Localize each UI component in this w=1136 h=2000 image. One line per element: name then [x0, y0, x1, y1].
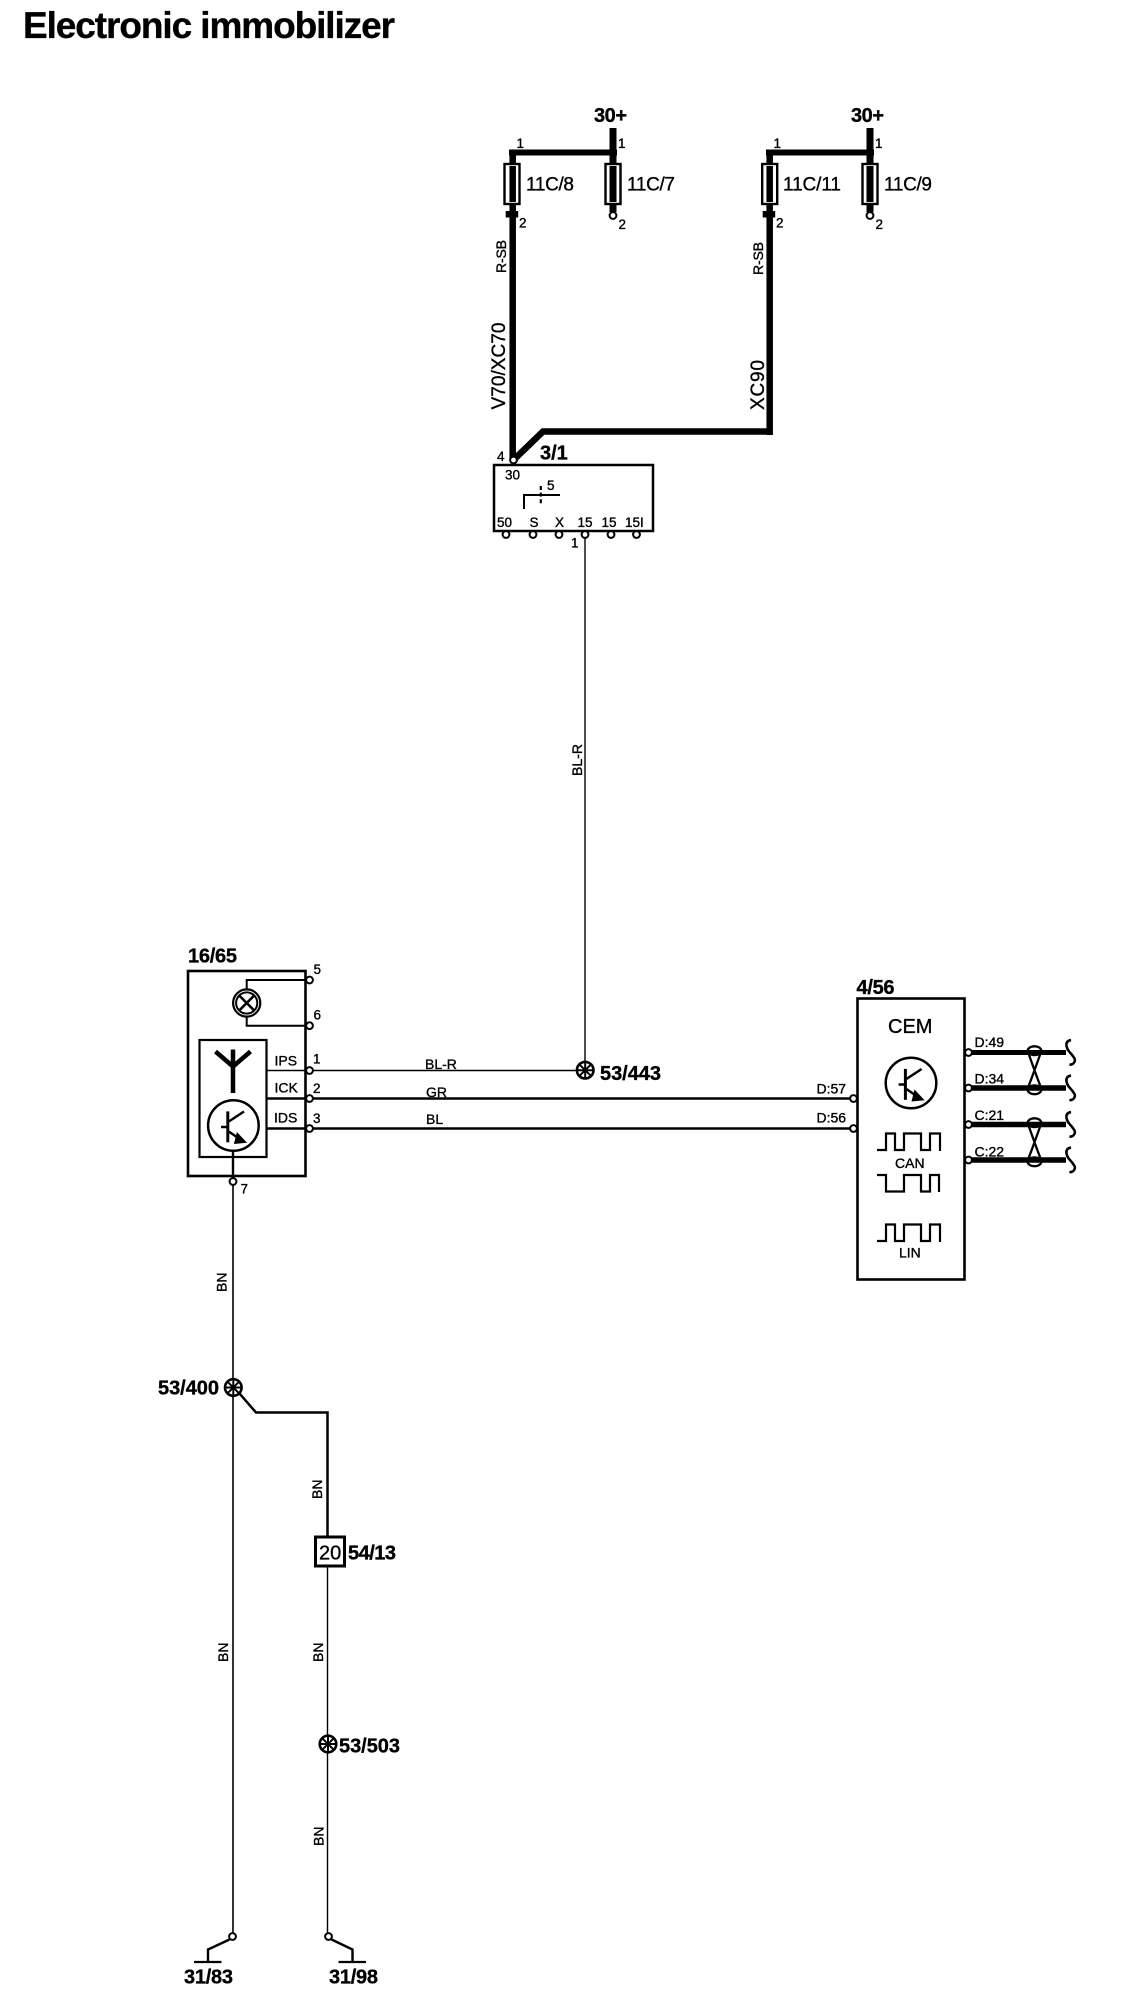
svg-text:7: 7 [241, 1182, 249, 1197]
svg-text:D:57: D:57 [817, 1081, 847, 1097]
svg-text:6: 6 [314, 1008, 322, 1023]
svg-text:XC90: XC90 [748, 360, 769, 410]
svg-text:Electronic immobilizer: Electronic immobilizer [23, 5, 395, 46]
svg-text:2: 2 [776, 216, 784, 231]
svg-text:D:56: D:56 [817, 1110, 847, 1126]
svg-text:4: 4 [497, 449, 505, 464]
svg-text:1: 1 [517, 136, 525, 151]
svg-text:2: 2 [876, 217, 884, 232]
svg-text:BL: BL [426, 1111, 443, 1127]
svg-text:54/13: 54/13 [348, 1543, 396, 1565]
svg-text:11C/7: 11C/7 [627, 175, 675, 196]
svg-text:D:49: D:49 [975, 1034, 1005, 1050]
svg-text:30: 30 [505, 468, 520, 483]
svg-text:C:21: C:21 [975, 1107, 1005, 1123]
svg-text:53/503: 53/503 [339, 1736, 400, 1758]
svg-text:30+: 30+ [594, 105, 627, 127]
svg-text:R-SB: R-SB [493, 240, 509, 273]
svg-text:1: 1 [875, 136, 883, 151]
svg-text:15: 15 [602, 515, 617, 530]
svg-text:15I: 15I [625, 515, 644, 530]
svg-text:BN: BN [214, 1273, 230, 1292]
svg-text:1: 1 [618, 136, 626, 151]
svg-text:11C/11: 11C/11 [783, 175, 841, 196]
svg-text:16/65: 16/65 [188, 946, 237, 968]
svg-text:V70/XC70: V70/XC70 [489, 323, 510, 410]
svg-text:53/443: 53/443 [600, 1063, 661, 1085]
svg-text:2: 2 [313, 1081, 321, 1096]
svg-text:3: 3 [313, 1111, 321, 1126]
svg-text:BL-R: BL-R [569, 744, 585, 776]
svg-text:50: 50 [497, 515, 512, 530]
svg-text:IDS: IDS [274, 1110, 297, 1126]
svg-text:IPS: IPS [275, 1053, 298, 1069]
svg-text:BN: BN [311, 1827, 327, 1846]
svg-text:53/400: 53/400 [158, 1378, 219, 1400]
svg-text:1: 1 [313, 1052, 321, 1067]
svg-text:15: 15 [578, 515, 593, 530]
svg-text:1: 1 [571, 536, 579, 551]
svg-text:5: 5 [547, 478, 555, 493]
svg-text:R-SB: R-SB [750, 242, 766, 275]
svg-text:20: 20 [319, 1543, 341, 1565]
svg-text:BN: BN [310, 1643, 326, 1662]
svg-text:1: 1 [774, 136, 782, 151]
svg-text:11C/8: 11C/8 [526, 175, 574, 196]
svg-text:BL-R: BL-R [425, 1056, 457, 1072]
svg-text:31/83: 31/83 [184, 1967, 233, 1989]
svg-text:GR: GR [426, 1084, 447, 1100]
svg-text:30+: 30+ [851, 105, 884, 127]
svg-text:4/56: 4/56 [857, 977, 895, 999]
svg-text:3/1: 3/1 [540, 443, 568, 465]
svg-text:C:22: C:22 [975, 1144, 1005, 1160]
svg-text:BN: BN [215, 1643, 231, 1662]
svg-text:11C/9: 11C/9 [884, 175, 932, 196]
svg-text:BN: BN [309, 1480, 325, 1499]
svg-text:LIN: LIN [899, 1245, 921, 1261]
svg-text:X: X [555, 515, 564, 530]
svg-text:5: 5 [314, 962, 322, 977]
svg-text:D:34: D:34 [975, 1071, 1005, 1087]
svg-text:2: 2 [519, 216, 527, 231]
svg-text:ICK: ICK [275, 1080, 299, 1096]
svg-text:CEM: CEM [888, 1016, 932, 1038]
svg-text:31/98: 31/98 [329, 1967, 378, 1989]
svg-text:S: S [530, 515, 539, 530]
svg-text:2: 2 [619, 217, 627, 232]
svg-text:CAN: CAN [895, 1155, 925, 1171]
